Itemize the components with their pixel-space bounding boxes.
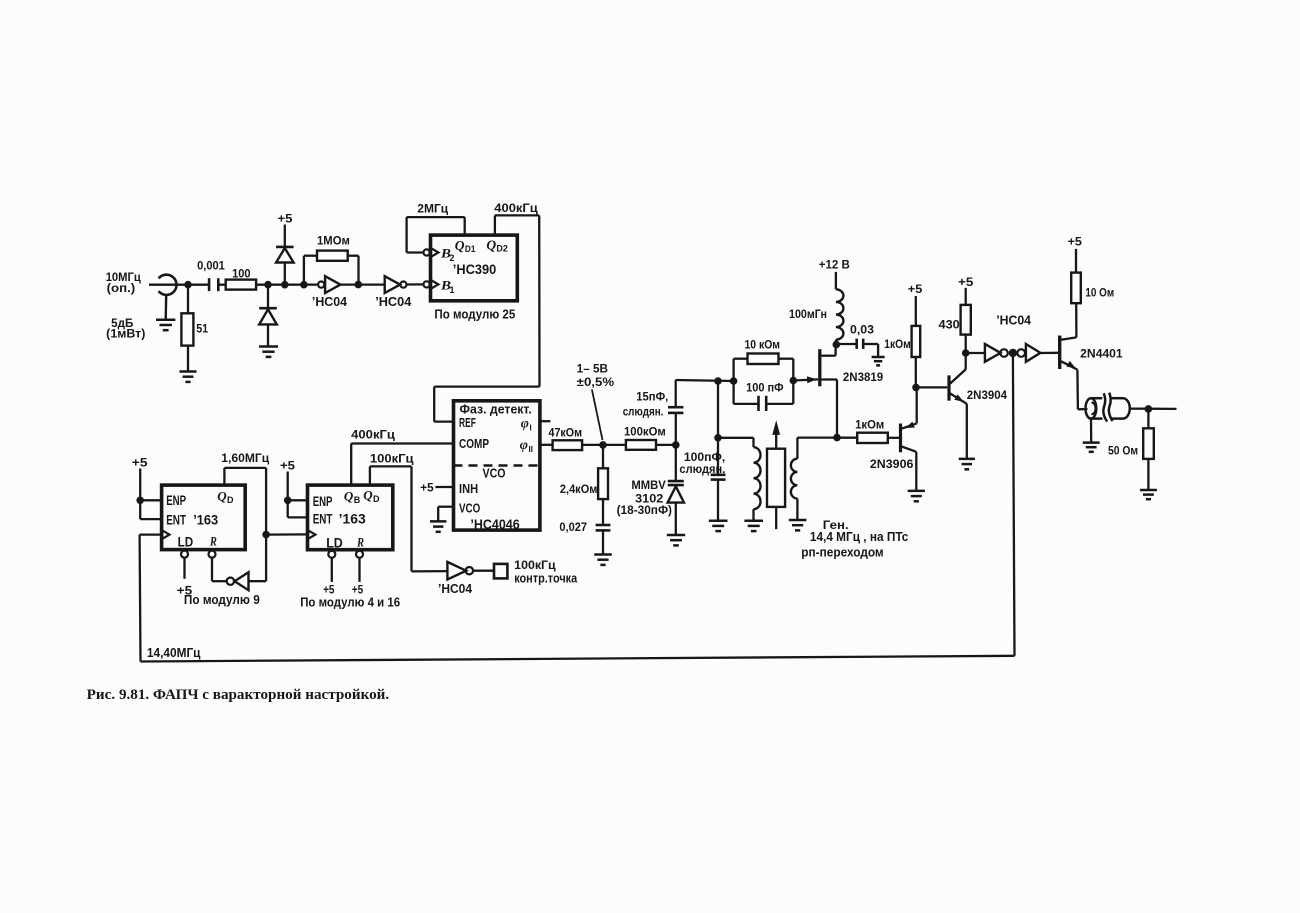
svg-text:1: 1	[450, 285, 455, 295]
svg-text:+5: +5	[908, 284, 923, 296]
wire: L3 top to 2N3906 base rail	[797, 438, 836, 459]
pin: U4 LD bubble	[328, 551, 335, 558]
wire: D3 anode to ground	[267, 324, 269, 346]
ground: under C6	[872, 357, 885, 365]
svg-text:Q: Q	[486, 238, 496, 253]
wire: VCO pin to ground	[438, 507, 453, 522]
svg-text:’HC04: ’HC04	[312, 294, 348, 309]
label: 51	[196, 324, 209, 336]
label: +5 above R9	[908, 284, 923, 296]
svg-text:ENP: ENP	[313, 494, 333, 509]
wire: node C up through C3	[675, 380, 677, 445]
svg-text:14,40МГц: 14,40МГц	[147, 645, 201, 660]
label: 'HC4046	[470, 517, 520, 532]
wire: coax to output node	[1130, 407, 1177, 410]
svg-text:D: D	[373, 494, 380, 504]
svg-text:+5: +5	[420, 483, 434, 495]
capacitor C5 100 пФ	[759, 396, 767, 411]
node: drain node	[833, 341, 841, 349]
svg-text:I: I	[530, 424, 532, 433]
wire: L3 to ground	[796, 499, 798, 521]
wire: tank node to L2	[718, 438, 754, 447]
svg-text:400кГц: 400кГц	[351, 429, 395, 441]
transistor Q1 2N3819 JFET	[820, 345, 837, 438]
label: 400 кГц (COMP)	[351, 429, 395, 441]
wire: varactor to ground	[675, 503, 677, 535]
wire: +12 to L1	[835, 272, 837, 289]
svg-text:слюдян.: слюдян.	[679, 464, 725, 476]
wire: R5 to C2	[602, 499, 604, 525]
svg-text:D1: D1	[465, 244, 476, 254]
svg-text:+5: +5	[278, 214, 294, 226]
svg-text:100: 100	[232, 268, 251, 280]
svg-text:контр.точка: контр.точка	[514, 571, 578, 585]
resistor R10 430	[961, 305, 971, 335]
inverter U1d HC04 to test point	[447, 562, 473, 580]
wire: R6 to varactor node	[656, 444, 676, 446]
label: 1,60 МГц	[221, 453, 269, 465]
ground: under input connector	[156, 320, 175, 330]
wire: +5 to R10	[965, 288, 967, 305]
wire: +5 to INH pin	[436, 486, 454, 488]
label: +5 under U4 R	[352, 584, 364, 596]
wire: R4 to node B	[582, 444, 603, 446]
svg-text:слюдян.: слюдян.	[623, 407, 664, 419]
node G: output node	[1145, 405, 1153, 413]
label: B1	[440, 278, 455, 296]
svg-text:2,4кОм: 2,4кОм	[560, 484, 598, 496]
node: source node	[833, 434, 841, 442]
label: 'HC390	[453, 262, 496, 277]
wire: C6 to ground	[863, 344, 878, 357]
label: +12 В	[819, 259, 850, 271]
capacitor C6 0,03	[857, 339, 864, 349]
IC U5 'HC4046 box	[454, 401, 540, 530]
label: QD2 output	[486, 238, 508, 254]
svg-text:II: II	[529, 445, 533, 454]
label: QD (U4)	[363, 488, 380, 504]
wire: branch x=718 down	[717, 381, 719, 475]
wire: U1d to test point square	[473, 570, 494, 572]
inverter U1f HC04 (input bubble)	[1017, 344, 1040, 362]
inverter U1c (reset feedback, points left)	[227, 572, 249, 590]
wire: R12 to ground	[1147, 459, 1149, 490]
node: U1a output junction	[355, 281, 363, 289]
node: clamp diode junction upper	[281, 281, 289, 289]
label: +5 for U4	[280, 460, 296, 472]
svg-text:По модулю 9: По модулю 9	[184, 592, 260, 607]
label: +5 for U3	[132, 457, 148, 469]
wire: source node to R8	[837, 437, 857, 439]
wire: oscillator gate rail	[676, 380, 734, 381]
label: 100 кГц контр. точка	[514, 560, 578, 585]
wire: node to D3 cathode	[267, 285, 269, 309]
source J1: reference input connector (open circle)	[159, 275, 177, 320]
node: U1a input node	[300, 281, 308, 289]
label: 100 пФ	[746, 383, 784, 395]
wire: phi II to R4	[540, 444, 553, 446]
label: Ген. 14,4 МГц на ПТ с рп-переходом	[801, 518, 908, 560]
tuning slug (adjustable core) with arrow	[767, 420, 785, 529]
svg-text:φ: φ	[520, 438, 528, 453]
label: VCO (center)	[483, 467, 506, 481]
svg-text:Q: Q	[363, 488, 373, 503]
pin: U3 R bubble	[209, 551, 216, 558]
label: 2N4401	[1080, 347, 1123, 361]
svg-text:51: 51	[196, 324, 209, 336]
wire: C1 to R2	[218, 284, 225, 286]
IC U3 '163 box	[162, 485, 246, 549]
label: +5 under U4 LD	[323, 584, 335, 596]
wire: node to D2 anode	[284, 263, 286, 285]
wire: QD1 to B2 feedback loop (2 МГц)	[407, 217, 465, 252]
wire: R8 to Q2 base	[888, 437, 899, 439]
resistor R12 50 Ом	[1143, 428, 1154, 459]
node: tank top node	[714, 434, 722, 442]
svg-text:0,027: 0,027	[559, 522, 587, 534]
svg-text:2МГц: 2МГц	[417, 204, 448, 216]
capacitor C1 0,001	[209, 278, 218, 291]
label: 100	[232, 268, 251, 280]
label: 100 кОм	[624, 426, 666, 438]
node A: input junction	[184, 281, 192, 289]
label: 5 дБ (1 мВт)	[106, 318, 145, 341]
label: R (U3)	[209, 534, 217, 549]
wire: U3 LD to +5	[183, 558, 185, 579]
wire: RC combo right leg	[766, 359, 793, 404]
node D: Q2 emitter / Q3 base node	[912, 384, 920, 392]
wire: +5 to U4 ENP/ENT	[288, 472, 308, 518]
svg-text:D2: D2	[496, 244, 508, 254]
node: U3 ENP junction	[136, 497, 144, 505]
label: QD (U3)	[217, 489, 234, 505]
capacitor C3 15 пФ слюдян.	[668, 407, 683, 413]
label: MMBV 3102 (18-30пФ)	[617, 480, 673, 517]
label: 'HC04 (U1a)	[312, 294, 348, 309]
svg-text:1– 5В: 1– 5В	[577, 364, 608, 376]
wire: R11 to Q4 collector	[1075, 303, 1078, 337]
label: 2N3819	[843, 370, 884, 384]
wire: U4 R to +5	[358, 558, 360, 582]
label: По модулю 25	[434, 307, 515, 322]
inverter U1e HC04	[985, 344, 1008, 362]
label: 0,03	[850, 324, 874, 336]
wire: drain node to C6	[836, 343, 856, 345]
svg-text:400кГц: 400кГц	[494, 203, 537, 215]
node E: Q3 collector node	[962, 349, 970, 357]
wire: node E to U1e input	[966, 352, 985, 354]
svg-text:’163: ’163	[339, 512, 366, 527]
ground: under C2	[594, 555, 612, 565]
label: 0,001	[197, 261, 225, 273]
wire: R9 to node D	[915, 357, 917, 387]
svg-text:VCO: VCO	[459, 502, 481, 516]
svg-text:VCO: VCO	[483, 467, 506, 481]
svg-text:+5: +5	[280, 460, 296, 472]
ground: under R1 51	[180, 372, 197, 382]
wire: output node to R12	[1147, 409, 1149, 428]
svg-text:’HC4046: ’HC4046	[470, 517, 520, 532]
wire: U1f output to Q4 base	[1040, 352, 1058, 355]
svg-text:ENT: ENT	[166, 513, 186, 528]
svg-text:15пФ,: 15пФ,	[636, 391, 668, 403]
label: 2N3906	[870, 457, 914, 471]
wire: +5 to U3 ENP/ENT	[140, 469, 161, 520]
label: 14,40 МГц	[147, 645, 201, 660]
wire: gate lead with arrow	[793, 376, 818, 383]
inverter U1b HC04 (output bubble)	[385, 276, 407, 293]
label: 10 кОм	[745, 340, 781, 352]
label: 'HC04 (output pair)	[996, 312, 1032, 327]
net: 14,4 МГц feedback loop	[140, 357, 1015, 662]
node: clamp diode junction lower	[264, 281, 272, 289]
svg-text:R: R	[356, 535, 364, 550]
svg-text:+5: +5	[958, 277, 974, 289]
svg-text:100кГц: 100кГц	[370, 453, 414, 465]
ground: under L2	[744, 521, 763, 531]
svg-text:ENT: ENT	[313, 512, 333, 527]
node F: inter-inverter node (14,4 МГц feedback)	[1009, 349, 1017, 357]
wire: RC combo left leg	[734, 359, 759, 404]
resistor R1 51	[181, 313, 193, 345]
ground: under R12	[1140, 490, 1157, 499]
inductor L1 100 мГн	[836, 289, 844, 344]
svg-text:+5: +5	[132, 457, 148, 469]
svg-text:2N3819: 2N3819	[843, 370, 884, 384]
svg-text:φ: φ	[521, 417, 529, 432]
label: REF pin	[459, 416, 476, 430]
svg-text:COMP: COMP	[459, 437, 489, 451]
wire: R10 to node E	[965, 335, 967, 353]
label: ENP (U3)	[166, 493, 186, 508]
svg-text:MMBV: MMBV	[631, 480, 666, 492]
label: 1 кОм (R8)	[855, 420, 884, 432]
svg-text:50 Ом: 50 Ом	[1108, 446, 1138, 458]
label: 'HC04 (U1d)	[438, 581, 473, 596]
wire: U3 QD to 1,60 МГц line	[224, 468, 266, 535]
svg-text:По модулю 4 и 16: По модулю 4 и 16	[300, 594, 400, 609]
label: 100 мГн	[789, 309, 827, 321]
label: QB (U4)	[344, 489, 361, 505]
svg-text:1МОм: 1МОм	[317, 236, 350, 248]
svg-text:2N3906: 2N3906	[870, 457, 914, 471]
label: R (U4)	[356, 535, 364, 550]
svg-text:47кОм: 47кОм	[549, 427, 583, 439]
label: LD (U4)	[326, 535, 343, 550]
label: 10 Ом	[1085, 287, 1114, 299]
label: 430	[939, 320, 960, 332]
wire: U1c output to U3 R pin	[212, 558, 227, 581]
svg-text:(оп.): (оп.)	[107, 283, 136, 295]
capacitor C4 100пФ слюдян.	[711, 475, 726, 480]
net: 400 кГц from U4 QB to COMP	[351, 444, 453, 486]
resistor R6 100 кОм	[626, 440, 656, 450]
label: +5 under U3 LD	[177, 585, 193, 597]
wire: R2 to inverter U1a input	[256, 283, 318, 285]
wire: U4 LD to +5	[331, 558, 333, 582]
svg-text:’HC04: ’HC04	[438, 581, 473, 596]
svg-text:R: R	[209, 534, 217, 549]
label: B2	[440, 246, 455, 264]
svg-text:D: D	[227, 495, 234, 505]
label: COMP pin	[459, 437, 489, 451]
svg-text:3102: 3102	[635, 494, 663, 506]
resistor R7 10 кОм	[748, 354, 779, 365]
transistor Q2 2N3906 (PNP)	[901, 387, 917, 491]
ground: under C4	[709, 521, 728, 531]
node: U4 ENP junction	[284, 497, 292, 505]
label: 47 кОм	[549, 427, 583, 439]
varactor D1 MMBV3102	[668, 481, 684, 503]
label: '163 (U4)	[339, 512, 366, 527]
svg-text:100пФ,: 100пФ,	[684, 452, 725, 464]
svg-text:LD: LD	[326, 535, 343, 550]
ground: under Q2 collector	[908, 491, 925, 501]
pin: U4 R bubble	[356, 551, 363, 558]
label: '163 (U3)	[193, 513, 218, 528]
wire: D2 cathode to +5	[284, 225, 286, 247]
label: 100 кГц	[370, 453, 414, 465]
diode D3 clamp to ground	[259, 308, 277, 324]
node: 10 MHz reference input wire	[149, 284, 209, 286]
label: По модулю 4 и 16	[300, 594, 400, 609]
label: phi I output	[521, 417, 532, 433]
label: VCO pin	[459, 502, 481, 516]
label: 1-5 В ±0,5%	[577, 364, 614, 389]
svg-text:’HC04: ’HC04	[996, 312, 1032, 327]
IC U4 '163 box	[308, 485, 393, 550]
svg-text:100мГн: 100мГн	[789, 309, 827, 321]
label: 2,4 кОм	[560, 484, 598, 496]
svg-text:Q: Q	[455, 238, 465, 253]
ground: at U5 VCO pin	[430, 521, 446, 531]
test point square: 100 кГц контрольная точка	[494, 564, 507, 579]
resistor R3 1 МОм	[317, 251, 348, 261]
wire: junction down to inverter U1c input	[249, 535, 267, 582]
label: 2N3904	[967, 388, 1008, 402]
label: +5 above R11	[1068, 237, 1083, 249]
wire: node B to R5	[602, 445, 604, 468]
caption: Рис. 9.81	[87, 687, 389, 703]
wire: +5 to R11	[1075, 249, 1077, 273]
wire: +5 to R9	[915, 296, 917, 326]
svg-text:’163: ’163	[193, 513, 218, 528]
wire: input node to R1	[187, 285, 189, 314]
svg-text:Фаз. детект.: Фаз. детект.	[460, 403, 532, 417]
svg-text:10 Ом: 10 Ом	[1085, 287, 1114, 299]
svg-text:1кОм: 1кОм	[884, 339, 911, 351]
label: 50 Ом	[1108, 446, 1138, 458]
label: 100пФ, слюдян.	[679, 452, 725, 476]
wire: R3 feedback left leg	[304, 256, 317, 285]
node: rail junction at RC combo	[730, 377, 738, 385]
svg-text:(1мВт): (1мВт)	[106, 329, 145, 341]
wire: Q4 emitter to coax	[1078, 408, 1088, 411]
wire: L2 to ground	[752, 509, 754, 521]
resistor R9 1 кОм	[912, 326, 921, 357]
wire: clock input to U3 (14,4 МГц net)	[140, 533, 162, 535]
net: 100 кГц from U4 QD to U1d	[370, 466, 448, 571]
pin: U3 LD bubble	[181, 551, 188, 558]
svg-text:B: B	[354, 495, 361, 505]
svg-text:LD: LD	[178, 535, 194, 550]
label: 1 кОм (R9)	[884, 339, 911, 351]
label: Фаз. детект.	[460, 403, 532, 417]
inductor L3 tank secondary	[791, 459, 798, 499]
svg-text:430: 430	[939, 320, 960, 332]
svg-text:ENP: ENP	[166, 493, 186, 508]
inductor L2 tank primary	[754, 447, 761, 509]
wire: U1b output to B1 input	[407, 283, 424, 285]
node B: loop filter node	[599, 441, 607, 449]
svg-text:1,60МГц: 1,60МГц	[221, 453, 269, 465]
pin: U4 clock wedge	[308, 530, 316, 539]
ground: under Q3 emitter	[959, 459, 975, 469]
svg-text:0,001: 0,001	[197, 261, 225, 273]
wire: node C down to varactor	[675, 445, 677, 481]
wire: node D to Q3 base	[916, 386, 947, 388]
label: 0,027	[559, 522, 587, 534]
label: +5 clamp supply	[278, 214, 294, 226]
wire: U1a output to U1b input	[340, 283, 384, 285]
ground: under varactor	[667, 535, 685, 545]
label: 15 пФ слюдян.	[623, 391, 669, 418]
node: RC combo right junction	[790, 377, 798, 385]
resistor R2 100	[226, 280, 256, 290]
diode D2 clamp to +5	[276, 247, 294, 263]
label: +5 above R10	[958, 277, 974, 289]
svg-text:1кОм: 1кОм	[855, 420, 884, 432]
label: 2 МГц	[417, 204, 448, 216]
resistor R5 2,4 кОм	[598, 468, 608, 499]
net: 400 кГц from QD2 to REF	[434, 215, 539, 421]
wire: C4 to ground	[717, 480, 719, 521]
ground: under L3	[789, 520, 807, 530]
pointer line from label to node B	[592, 390, 603, 441]
label: 1 МОм	[317, 236, 350, 248]
IC U2 'HC390 box	[431, 235, 518, 301]
label: ENT (U3)	[166, 513, 186, 528]
svg-text:Рис. 9.81. ФАПЧ с варакторной: Рис. 9.81. ФАПЧ с варакторной настройкой…	[87, 687, 389, 703]
label: INH pin	[459, 482, 478, 496]
svg-text:14,4 МГц , на ПТс: 14,4 МГц , на ПТс	[810, 530, 909, 544]
label: LD (U3)	[178, 535, 194, 550]
svg-text:100кГц: 100кГц	[514, 560, 556, 572]
resistor R4 47 кОм	[553, 440, 583, 450]
label: ENT (U4)	[313, 512, 333, 527]
label: ENP (U4)	[313, 494, 333, 509]
inverter U1a HC04 (input bubble)	[318, 276, 340, 293]
svg-text:По модулю 25: По модулю 25	[434, 307, 515, 322]
ground: under D3	[259, 347, 278, 357]
transistor Q4 2N4401 (NPN)	[1060, 336, 1078, 410]
svg-text:±0,5%: ±0,5%	[577, 377, 614, 389]
label: +5 at INH	[420, 483, 434, 495]
pin B1: bubble and clock wedge	[424, 280, 439, 289]
pin B2: bubble and clock wedge	[424, 248, 439, 257]
coax jack / cable symbol	[1086, 393, 1130, 422]
pin: U3 clock wedge	[162, 530, 170, 539]
wire: R3 feedback right leg	[348, 256, 359, 285]
svg-text:INH: INH	[459, 482, 478, 496]
resistor R8 1 кОм (base)	[857, 433, 888, 443]
svg-text:0,03: 0,03	[850, 324, 874, 336]
svg-text:’HC04: ’HC04	[375, 294, 412, 309]
ground: coax shield	[1083, 443, 1100, 452]
node C: varactor node	[672, 441, 680, 449]
svg-text:рп-переходом: рп-переходом	[801, 545, 883, 559]
svg-text:Q: Q	[217, 489, 227, 504]
